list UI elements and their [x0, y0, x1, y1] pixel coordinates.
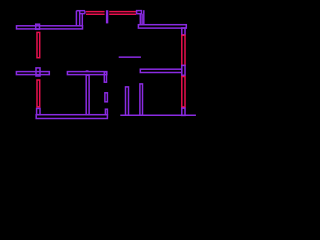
wall cap bump on middle wall: [86, 70, 89, 71]
window jamb crossing middle wall left: [36, 68, 40, 76]
wall vertical line C below block: [81, 14, 83, 26]
door jamb below top-right wall: [182, 28, 185, 35]
wall vertical inner line below right block: [139, 14, 141, 25]
wall bottom edge of corner block: [80, 13, 85, 15]
window W2 top horizontal pane right: [109, 11, 136, 13]
wall jamb at right mid junction: [182, 65, 185, 75]
interior partition post B: [140, 84, 143, 115]
wall middle-left horizontal segment 2: [67, 72, 106, 75]
wall jamb left bottom corner: [37, 108, 40, 114]
wall bottom horizontal double: [36, 115, 107, 119]
window W4 right side lower: [182, 77, 185, 107]
wall vertical second inner line below right block: [141, 14, 143, 25]
wall jamb right bottom: [182, 108, 185, 115]
window W2 lower line right: [109, 13, 136, 15]
window W3 right side upper: [182, 35, 185, 65]
window W6 left side lower: [37, 80, 40, 107]
window W5 left side upper: [37, 32, 40, 57]
wall top-left horizontal: [17, 26, 83, 29]
wall corner block upper-right of top room: [137, 11, 142, 14]
wall bottom single line: [120, 114, 196, 116]
window jamb cap left of window W1: [84, 11, 86, 14]
interior ledge solid bar: [119, 56, 141, 58]
wall vertical line B below block: [79, 11, 81, 26]
window mullion solid post: [106, 10, 108, 23]
wall vertical outer line right of upper room: [143, 10, 145, 24]
window W1 top horizontal pane left: [86, 11, 105, 13]
wall middle-left horizontal segment 1: [16, 72, 49, 75]
wall vertical line at left of upper room entry: [75, 11, 77, 26]
wall middle-right horizontal: [140, 69, 182, 72]
wall top-right horizontal: [138, 25, 186, 28]
door jamb floating interior: [105, 93, 108, 102]
door jamb on top-left wall: [36, 24, 40, 29]
window W1 lower line left: [86, 13, 105, 15]
wall top edge of corner block: [76, 10, 85, 12]
interior partition post A: [126, 87, 129, 115]
door jamb hanging below middle wall: [104, 72, 106, 82]
door jamb at right end of bottom wall: [105, 109, 107, 115]
wall interior vertical: [86, 75, 89, 115]
